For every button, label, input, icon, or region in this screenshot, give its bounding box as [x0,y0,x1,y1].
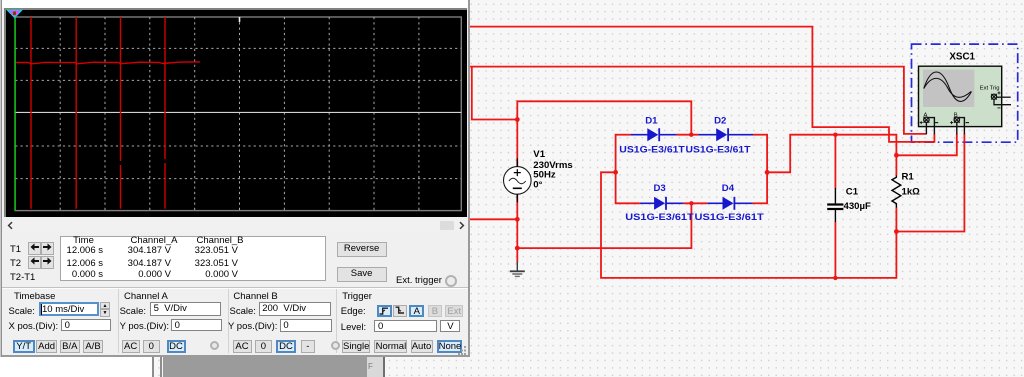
wire R1 top to scope B+ [896,134,956,156]
svg-text:Ext Trig: Ext Trig [980,86,1000,92]
bottom strip [0,357,1024,377]
svg-text:430µF: 430µF [844,201,872,212]
oscilloscope dialog [0,0,470,357]
svg-text:US1G-E3/61T: US1G-E3/61T [625,212,694,222]
capacitor C1 [827,186,871,222]
svg-text:D2: D2 [714,116,726,127]
wire bridge left to bottom rail [601,172,896,278]
diode D2 [698,116,753,142]
diode D3 [640,183,684,210]
svg-text:D3: D3 [654,183,666,194]
wire scope A+ net [468,67,927,134]
diode D1 [631,116,676,142]
svg-text:US1G-E3/61T: US1G-E3/61T [686,144,751,154]
wire C1 bottom [834,222,836,278]
svg-text:0°: 0° [533,180,542,191]
bridge rails (red parts) [616,134,768,204]
diode value labels [619,144,764,222]
svg-text:D1: D1 [645,116,658,127]
svg-text:1kΩ: 1kΩ [902,187,921,198]
wire V1 bottom / ground net [468,192,691,263]
svg-text:D4: D4 [722,183,735,194]
wire scope A- net (top) [468,27,934,142]
svg-text:US1G-E3/61T: US1G-E3/61T [619,144,685,154]
ground [510,262,525,276]
svg-text:US1G-E3/61T: US1G-E3/61T [695,212,765,222]
wire bridge right to C1/R1 top [767,135,896,189]
terminal A [920,112,939,134]
wire R1 bottom to scope B- [896,134,964,232]
svg-text:V1: V1 [533,149,545,160]
svg-text:R1: R1 [902,172,915,183]
svg-text:C1: C1 [846,186,859,197]
oscilloscope instrument XSC1 [919,52,1012,135]
terminal B [950,112,969,134]
svg-text:XSC1: XSC1 [949,52,975,63]
wire V1 top to bridge top [517,101,691,169]
ext trig terminal [991,91,1011,108]
V1 labels [533,149,572,190]
XSC1 selection box (dashed) [912,44,1018,142]
junction dots [515,117,899,280]
resistor R1 [892,172,920,208]
AC source V1 [504,158,532,202]
diode D4 [707,183,752,210]
